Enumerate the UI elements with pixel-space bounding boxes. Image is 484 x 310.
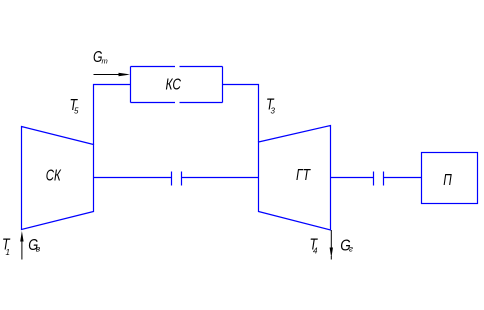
wire coupling 2 to load P [384,177,422,179]
svg-text:СК: СК [46,168,62,185]
svg-text:ГТ: ГТ [296,167,311,184]
arrow exhaust out of turbine [330,230,332,260]
coupling 1 [172,172,182,186]
svg-text:КС: КС [166,77,182,94]
svg-text:1: 1 [6,248,10,257]
wire shaft turbine to coupling 2 [331,177,374,179]
svg-text:в: в [36,244,41,254]
wire KC outlet to turbine inlet [223,85,259,143]
svg-text:4: 4 [313,247,318,256]
svg-text:т: т [102,57,108,66]
wire coupling to turbine [182,177,259,179]
svg-text:г: г [349,245,353,254]
block P (load) outline [422,153,478,204]
svg-text:П: П [443,172,452,189]
block KC (combustion chamber) outline [131,67,223,103]
arrow air inlet into compressor [21,240,23,260]
wire compressor outlet to KC [94,85,131,145]
wire shaft compressor to coupling [94,177,172,179]
arrow fuel Gt into KC [94,74,122,76]
turbine GT trapezoid [259,126,331,231]
svg-text:5: 5 [74,107,79,116]
compressor CK trapezoid [22,127,94,230]
coupling 2 [374,172,384,186]
svg-text:3: 3 [271,107,276,116]
